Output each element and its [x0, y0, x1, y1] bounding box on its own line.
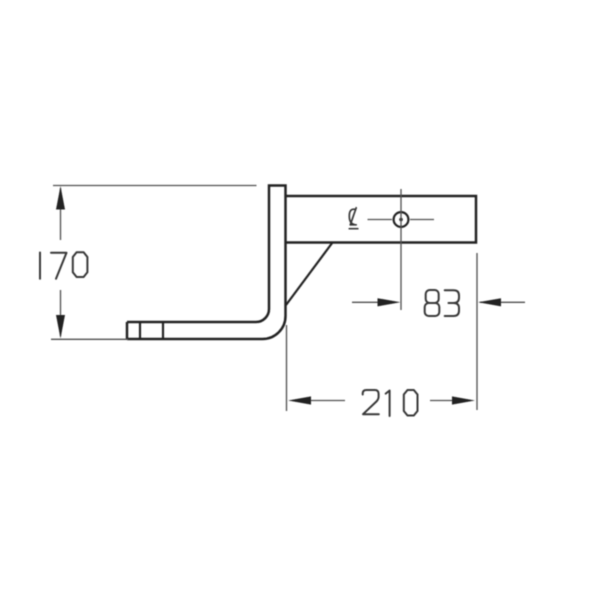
dimension text 83	[425, 290, 459, 316]
dimension text 170	[40, 252, 87, 279]
dimension line 210 right segment	[430, 400, 453, 402]
hole horizontal centerline right	[410, 219, 434, 221]
hole horizontal centerline left	[368, 219, 393, 221]
dimension text 210	[363, 390, 418, 416]
dimension line 210 left segment	[310, 400, 345, 402]
dimension line 170 upper segment	[60, 188, 62, 240]
centre line symbol	[349, 208, 358, 229]
receiver tube bar outline	[286, 196, 477, 243]
riser plate outline	[269, 186, 286, 317]
dimension line 83 left segment	[352, 301, 379, 303]
gusset diagonal	[286, 243, 333, 306]
inner fillet and shank top edge	[127, 309, 269, 322]
arrowhead 170 top	[56, 186, 65, 210]
top extension line	[53, 185, 257, 187]
bottom extension line	[51, 338, 128, 340]
hitch pin hole	[394, 212, 409, 227]
outer fillet and shank bottom edge	[127, 316, 286, 339]
right extension line at bar end	[476, 253, 478, 410]
shank end weld line 2	[162, 322, 164, 339]
dimension line 170 lower segment	[60, 290, 62, 337]
arrowhead 210 right	[452, 396, 475, 404]
arrowhead 83 left	[378, 298, 401, 306]
dimension line 83 right segment	[480, 301, 525, 303]
shank left end cap	[126, 322, 129, 339]
shank end weld line 1	[139, 322, 141, 339]
arrowhead 170 bottom	[56, 315, 65, 339]
arrowhead 83 right	[478, 298, 501, 306]
left extension line for 210	[286, 325, 288, 411]
arrowhead 210 left	[288, 396, 311, 404]
hole vertical centerline	[400, 189, 402, 310]
